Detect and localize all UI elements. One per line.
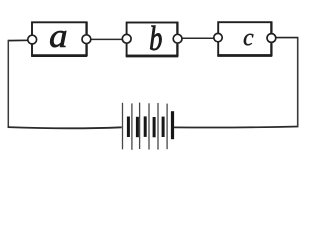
node: box c left terminal xyxy=(214,33,222,41)
box c xyxy=(217,22,272,56)
wire: top right lead from box c xyxy=(276,37,299,39)
label c xyxy=(244,34,254,46)
box b xyxy=(126,22,178,57)
wire: battery to bottom right xyxy=(174,127,299,128)
battery BT1: cell 5 long plate (+) xyxy=(157,103,159,150)
label a xyxy=(50,31,66,47)
battery BT1: cell 3 short plate (-) xyxy=(144,116,147,136)
wire: right vertical xyxy=(297,38,299,127)
battery BT1: cell 3 long plate (+) xyxy=(139,103,141,149)
battery BT1: cell 1 long plate (+) xyxy=(122,103,124,150)
label b xyxy=(150,26,161,51)
node: box c right terminal xyxy=(267,34,276,43)
node: box a right terminal xyxy=(82,35,91,44)
battery BT1: cell 2 short plate (-) xyxy=(136,117,139,137)
battery BT1: cell 6 long plate (+) xyxy=(166,104,168,150)
node: box a left terminal xyxy=(28,35,37,44)
battery BT1: cell 4 long plate (+) xyxy=(148,103,150,149)
battery BT1: cell 5 short plate (-) xyxy=(162,117,165,137)
wire: bottom left to battery xyxy=(8,127,122,128)
battery BT1: cell 1 short plate (-) xyxy=(127,117,130,138)
wire: left vertical xyxy=(7,40,9,128)
battery BT1: cell 6 short plate (-) xyxy=(171,111,174,139)
node: box b right terminal xyxy=(173,34,182,43)
wire: left lead to box a xyxy=(8,39,28,41)
battery BT1: cell 2 long plate (+) xyxy=(131,103,133,149)
node: box b left terminal xyxy=(122,34,131,43)
wire: between box b and box c xyxy=(182,37,214,39)
wire: between box a and box b xyxy=(91,38,123,40)
box a xyxy=(31,22,87,56)
battery BT1: cell 4 short plate (-) xyxy=(153,117,156,137)
